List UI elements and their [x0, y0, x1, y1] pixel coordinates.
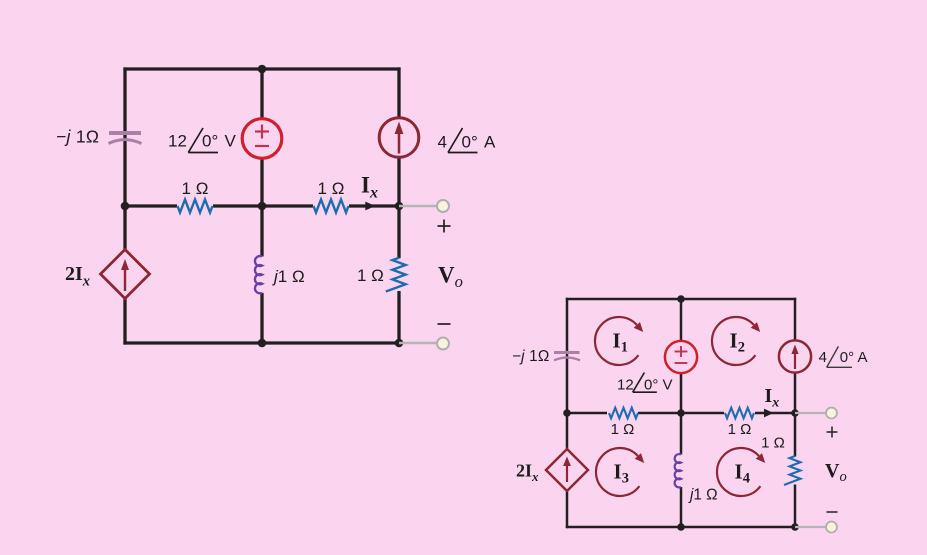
- svg-text:−j 1Ω: −j 1Ω: [56, 127, 99, 147]
- svg-text:j1 Ω: j1 Ω: [688, 487, 718, 504]
- svg-text:1 Ω: 1 Ω: [357, 266, 384, 285]
- svg-text:1 Ω: 1 Ω: [182, 179, 209, 198]
- svg-text:12: 12: [617, 377, 634, 394]
- svg-text:12: 12: [168, 132, 187, 151]
- svg-text:1 Ω: 1 Ω: [611, 421, 635, 438]
- svg-text:1 Ω: 1 Ω: [728, 421, 752, 438]
- svg-text:1 Ω: 1 Ω: [318, 179, 345, 198]
- svg-text:4: 4: [438, 133, 447, 152]
- svg-text:0°: 0°: [644, 377, 658, 394]
- svg-text:A: A: [484, 133, 496, 152]
- svg-text:V: V: [663, 377, 673, 394]
- svg-text:A: A: [858, 349, 868, 366]
- svg-text:V: V: [225, 132, 237, 151]
- svg-text:−j 1Ω: −j 1Ω: [512, 348, 550, 365]
- svg-text:4: 4: [819, 349, 827, 366]
- svg-text:0°: 0°: [462, 133, 478, 152]
- svg-text:1 Ω: 1 Ω: [761, 435, 785, 452]
- svg-text:0°: 0°: [202, 132, 218, 151]
- svg-text:0°: 0°: [840, 349, 854, 366]
- svg-text:j1 Ω: j1 Ω: [272, 267, 305, 286]
